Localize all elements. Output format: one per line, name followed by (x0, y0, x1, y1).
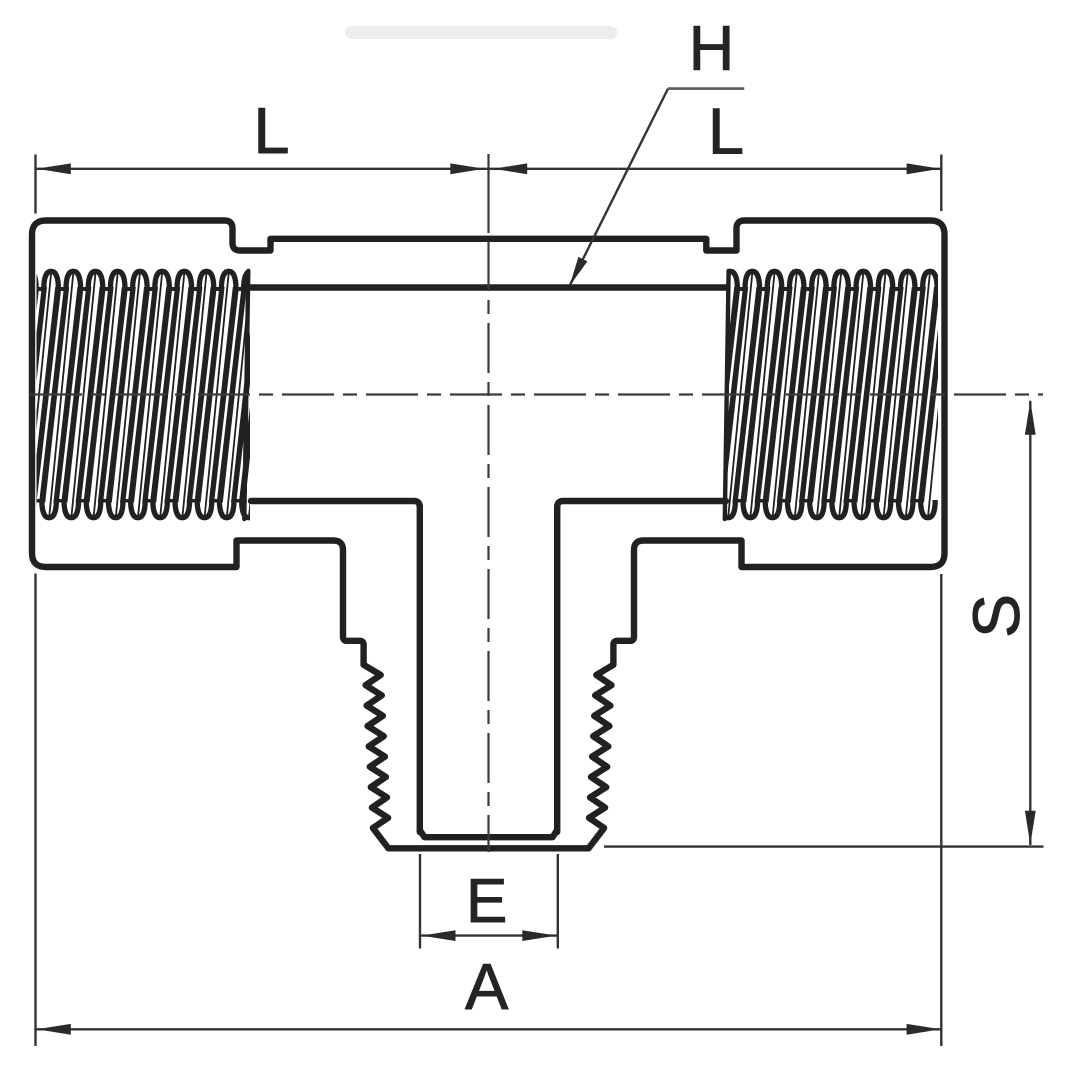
svg-text:H: H (689, 14, 735, 84)
svg-text:L: L (253, 94, 289, 167)
svg-text:S: S (959, 594, 1033, 638)
svg-text:E: E (466, 867, 507, 936)
svg-text:A: A (465, 950, 509, 1023)
svg-text:L: L (708, 94, 744, 167)
